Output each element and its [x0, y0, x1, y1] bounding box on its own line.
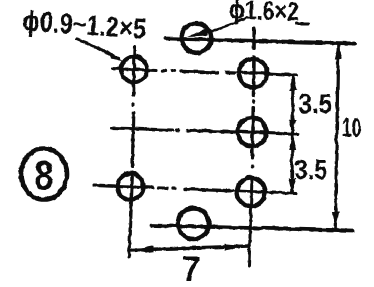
svg-text:3.5: 3.5: [294, 154, 327, 185]
centerline right column above S2: [252, 28, 255, 48]
centerline row1 dash-dot between S1 and S2: [162, 70, 234, 72]
crosshair S1 horizontal: [112, 68, 156, 70]
hole S1 (row1 left): [121, 56, 147, 82]
centerline left column: long dash through row2 cross: [130, 112, 134, 166]
crosshair S4 horizontal: [94, 185, 152, 188]
centerline right column dot between S2 and S3: [251, 100, 254, 102]
centerline row2 dash-dot between cross and S3: [176, 130, 234, 132]
leader arrowhead at hole B1: [187, 27, 208, 36]
leader from big-hole label to hole B1: [206, 17, 246, 32]
centerline left column: dash above row2 cross: [132, 88, 135, 95]
crosshair S1 vertical: [133, 46, 134, 95]
svg-text:3.5: 3.5: [298, 88, 332, 119]
dim 3.5 upper arrow up: [289, 76, 297, 91]
hole B2 (phi 1.6, bottom): [178, 208, 209, 239]
dimension line 3.5 lower: [290, 134, 294, 191]
crosshair S2 horizontal + stub to dim 3.5: [237, 72, 296, 75]
extension line top (through hole B1, to dim 10): [165, 38, 354, 43]
crosshair S5 vertical + extension to dim 7: [249, 177, 252, 265]
hole S3 (row2 right): [237, 117, 266, 146]
centerline left column: dot: [132, 104, 135, 106]
leader from small-hole label to hole S1: [76, 38, 118, 58]
svg-text:8: 8: [34, 151, 53, 198]
dim 3.5 lower arrow up: [288, 135, 296, 149]
leader arrowhead at hole S1: [106, 49, 123, 61]
hole S5 (row3 right): [237, 178, 265, 206]
hole S2 (row1 right): [238, 58, 266, 86]
centerline row3 dash-dot between S4 and S5: [158, 188, 232, 191]
centerline right column dot between S3 and S5: [250, 165, 253, 167]
dim 3.5 upper arrow down: [288, 119, 296, 133]
crosshair S3 horizontal + stub to dim 3.5: [236, 131, 297, 134]
hole S4 (row3 left): [117, 173, 143, 199]
dimension line 3.5 upper: [290, 77, 294, 132]
crosshair S3 vertical: [250, 107, 254, 158]
crosshair S2 vertical: [251, 56, 254, 95]
callout circle 8: [21, 148, 67, 199]
dim 10 arrow down: [331, 211, 339, 228]
dim 3.5 lower arrow down: [288, 178, 296, 192]
dim 7 arrow right: [224, 243, 249, 250]
svg-text:7: 7: [181, 250, 200, 287]
dim 7 arrow left: [129, 245, 153, 252]
dim 10 arrow up: [334, 42, 342, 59]
extension line bottom (through hole B2, to dim 10): [151, 225, 352, 230]
svg-text:10: 10: [341, 112, 361, 142]
hole B1 (phi 1.6, top): [181, 23, 211, 53]
stray mark near label: [296, 22, 308, 25]
crosshair S5 horizontal + stub to dim 3.5: [235, 191, 295, 194]
dimension line 10 (vertical right): [335, 44, 338, 227]
node row2-left cross horizontal: [111, 128, 172, 130]
svg-text:ϕ1.6×2: ϕ1.6×2: [228, 0, 299, 26]
dimension line 7 (horizontal bottom): [129, 246, 249, 250]
crosshair S4 vertical + extension to dim 7: [129, 172, 132, 257]
